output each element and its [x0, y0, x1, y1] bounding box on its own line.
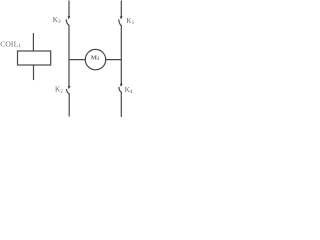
switch K4 arrowhead: [120, 84, 123, 87]
wire left rail top segment: [68, 1, 70, 17]
svg-text:K1: K1: [126, 17, 134, 26]
svg-text:K3: K3: [53, 16, 61, 25]
switch K3 arrowhead: [68, 16, 71, 19]
wire motor branch left: [69, 59, 85, 61]
wire right rail middle segment: [120, 26, 122, 85]
switch K4 blade: [119, 87, 121, 92]
wire coil top lead: [32, 34, 34, 52]
wire coil bottom lead: [33, 65, 35, 80]
svg-text:COIL1: COIL1: [0, 39, 21, 49]
switch K3 blade: [66, 20, 69, 26]
wire right rail bottom segment: [120, 92, 122, 116]
switch K1 blade: [119, 20, 122, 26]
svg-text:K4: K4: [125, 86, 133, 95]
switch K2 arrowhead: [68, 86, 71, 89]
svg-text:M1: M1: [91, 54, 100, 62]
wire left rail middle segment: [68, 25, 70, 87]
wire motor branch right: [106, 59, 122, 61]
wire left rail bottom segment: [68, 94, 70, 116]
wire right rail top segment: [120, 1, 122, 17]
svg-text:K2: K2: [55, 86, 63, 95]
coil COIL1 rectangle: [18, 51, 51, 65]
switch K1 arrowhead: [120, 16, 123, 19]
switch K2 blade: [67, 89, 70, 93]
motor M1 circle: [85, 49, 105, 69]
